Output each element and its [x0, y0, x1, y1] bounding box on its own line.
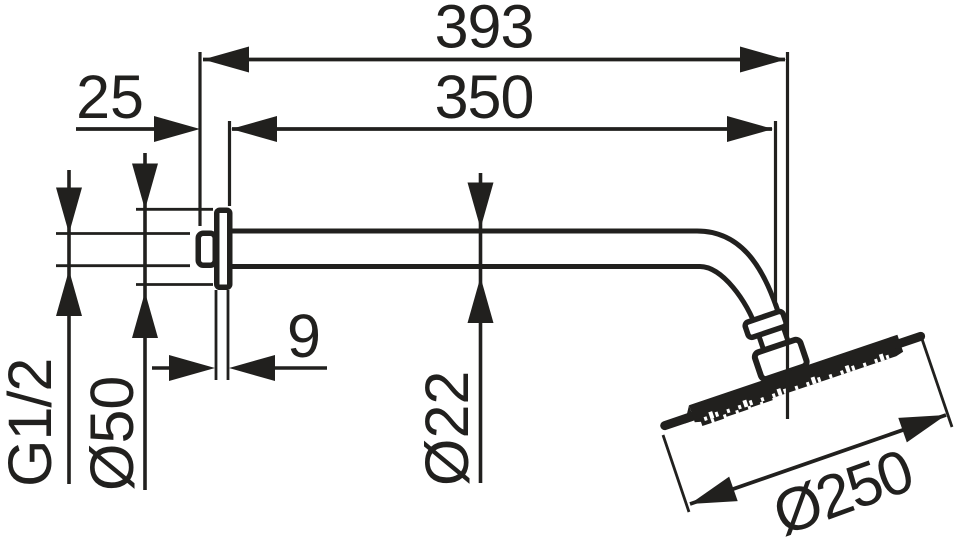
- dim 350 right arrow: [727, 116, 773, 142]
- 9 extension line right: [227, 290, 230, 380]
- D250 right arrow: [898, 403, 950, 443]
- D50 dim vertical line: [143, 153, 147, 490]
- dim 9 left shaft: [152, 366, 175, 370]
- shower arm pipe bottom line with bend: [230, 267, 757, 330]
- stem left edge: [757, 329, 774, 378]
- shower head assembly (rotated group): [638, 270, 930, 439]
- D22 down arrow: [468, 183, 494, 229]
- nozzle teeth below rim: [701, 397, 774, 426]
- D50 down arrow: [132, 164, 158, 210]
- extension line x787.5 (393 right): [786, 52, 789, 419]
- D50 extension top: [136, 208, 213, 211]
- svg-text:9: 9: [287, 302, 321, 370]
- dim 350 left arrow: [231, 116, 277, 142]
- nipple G1/2: [198, 233, 215, 265]
- svg-text:Ø50: Ø50: [78, 376, 146, 491]
- D250 extension line left: [663, 435, 689, 512]
- collar above ball joint: [744, 310, 787, 338]
- extension line x775.5 (350 right): [774, 121, 777, 304]
- dim 9 right shaft: [270, 366, 327, 370]
- G1/2 down arrow: [56, 188, 82, 234]
- dim 393 right arrow: [740, 47, 786, 73]
- dim 25 right-pointing arrow: [154, 116, 200, 142]
- dim 9 right-pointing arrow: [169, 355, 215, 381]
- extension line x229.5 (350 left): [228, 121, 231, 206]
- nozzle white notches: [703, 352, 890, 421]
- dim 350 line: [232, 127, 772, 131]
- plate left taper tip: [659, 411, 698, 432]
- shower arm pipe top line with bend: [230, 231, 779, 315]
- dim 9 left-pointing arrow: [229, 355, 275, 381]
- stem right edge: [776, 304, 798, 370]
- G1/2 extension bottom: [56, 264, 190, 267]
- dim 393 line: [203, 58, 785, 62]
- G1/2 up arrow: [56, 270, 82, 316]
- D250 dim line: [690, 415, 946, 504]
- ball joint nut: [754, 338, 808, 380]
- shower head plate body: [689, 335, 904, 424]
- dim 25 shaft: [76, 127, 160, 131]
- D50 up arrow: [132, 292, 158, 338]
- D22 up arrow: [468, 277, 494, 323]
- dim 393 left arrow: [203, 47, 249, 73]
- svg-text:25: 25: [76, 63, 144, 131]
- svg-text:Ø22: Ø22: [413, 371, 481, 486]
- extension line x200 (393/25): [198, 52, 201, 226]
- 9 extension line left: [215, 290, 218, 380]
- svg-text:350: 350: [435, 63, 534, 131]
- svg-text:393: 393: [435, 0, 534, 61]
- G1/2 dim vertical line: [67, 170, 71, 484]
- D250 extension line right: [922, 339, 952, 427]
- G1/2 extension top: [56, 232, 190, 235]
- svg-text:G1/2: G1/2: [0, 359, 64, 487]
- flange: [217, 210, 230, 287]
- D22 dim vertical line: [479, 173, 483, 483]
- D50 extension bottom: [136, 283, 213, 286]
- D250 left arrow: [686, 477, 738, 517]
- plate left chamfer: [680, 405, 695, 423]
- plate right taper tip: [891, 331, 926, 350]
